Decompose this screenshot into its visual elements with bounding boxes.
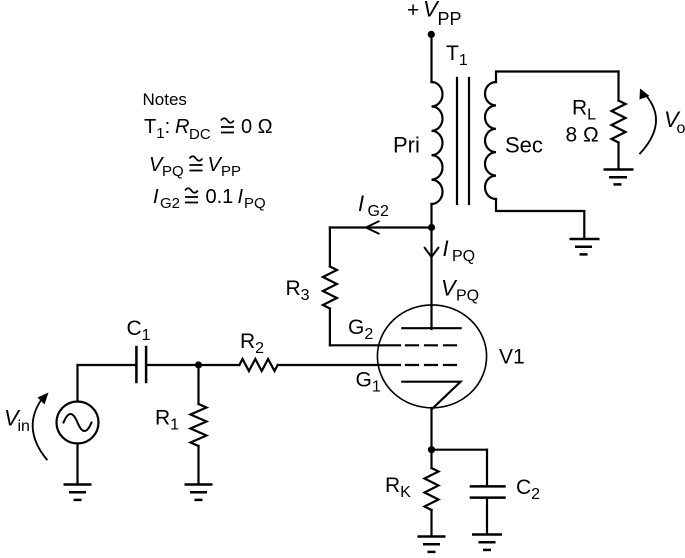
svg-text:Sec: Sec: [505, 132, 543, 157]
svg-text:Notes: Notes: [143, 90, 187, 109]
svg-text:I: I: [358, 191, 364, 216]
svg-text:0.1: 0.1: [206, 186, 234, 208]
svg-text:PQ: PQ: [456, 288, 479, 305]
svg-text:8 Ω: 8 Ω: [566, 124, 599, 147]
svg-text:G2: G2: [368, 203, 389, 220]
svg-text:G2: G2: [160, 195, 180, 212]
svg-text:0 Ω: 0 Ω: [241, 116, 273, 138]
svg-text:R: R: [175, 116, 189, 138]
svg-text:+: +: [407, 0, 419, 22]
svg-text:o: o: [677, 120, 685, 137]
svg-text:V1: V1: [499, 346, 525, 369]
svg-text:Pri: Pri: [393, 132, 420, 157]
svg-text:PQ: PQ: [162, 163, 184, 180]
svg-text:PP: PP: [438, 9, 462, 29]
svg-text:PQ: PQ: [244, 195, 266, 212]
svg-text:I: I: [238, 186, 244, 208]
svg-text:I: I: [153, 186, 159, 208]
svg-text:PQ: PQ: [452, 248, 475, 265]
svg-text:DC: DC: [189, 126, 211, 143]
svg-text:I: I: [443, 236, 449, 261]
svg-text:PP: PP: [221, 163, 241, 180]
svg-text:in: in: [18, 418, 30, 435]
